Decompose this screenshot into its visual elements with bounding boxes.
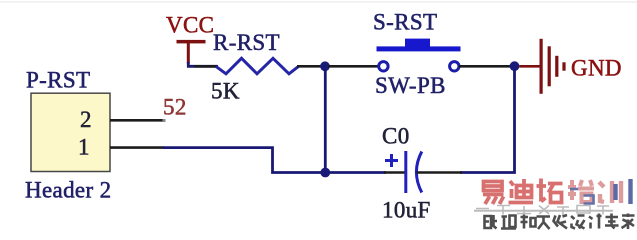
- svg-text:5K: 5K: [211, 79, 240, 104]
- wire node B down to bottom rail: [460, 66, 515, 172]
- svg-text:GND: GND: [571, 56, 622, 81]
- slogan char 3: [521, 215, 536, 229]
- svg-text:SW-PB: SW-PB: [375, 73, 446, 98]
- resistor R-RST: [211, 30, 299, 104]
- logo char 4: [568, 180, 594, 202]
- svg-text:P-RST: P-RST: [26, 67, 90, 92]
- slogan char 8: [605, 214, 619, 229]
- plus sign: [385, 154, 398, 167]
- svg-text:52: 52: [163, 95, 187, 120]
- svg-text:R-RST: R-RST: [213, 30, 280, 55]
- slogan char 1: [485, 215, 498, 229]
- resistor R1 right pin: [297, 65, 323, 68]
- logo char 2: [509, 179, 534, 203]
- capacitor C0 left pin: [384, 171, 405, 174]
- watermark logo red text row: [483, 179, 631, 205]
- svg-text:1: 1: [78, 135, 90, 160]
- right plate (curved): [416, 152, 421, 193]
- wire node A to switch: [328, 65, 379, 68]
- switch contact circle left: [379, 62, 388, 71]
- capacitor C0 right pin: [417, 171, 463, 174]
- slogan char 2: [501, 216, 516, 229]
- gnd lead wire: [519, 65, 540, 68]
- logo char 5 overlay: [616, 179, 631, 204]
- faint top edge line: [0, 1, 637, 3]
- power symbol VCC: [166, 13, 214, 64]
- wire pin 1 to node C: [163, 148, 322, 173]
- slogan char 7: [589, 214, 602, 229]
- slogan char 5: [554, 215, 568, 229]
- switch bar: [377, 46, 461, 51]
- logo char 4 overlay: [570, 189, 594, 204]
- junction node B: [510, 61, 520, 71]
- wire node A down to bottom rail: [324, 66, 327, 173]
- logo char 1: [483, 182, 504, 205]
- svg-text:VCC: VCC: [166, 13, 214, 38]
- svg-text:Header 2: Header 2: [25, 178, 111, 203]
- wire node C to capacitor: [328, 171, 386, 174]
- connector body: [31, 93, 110, 171]
- logo char 5: [599, 181, 621, 203]
- switch bump: [405, 39, 430, 47]
- slogan char 6: [571, 216, 585, 229]
- capacitor C0: [382, 124, 431, 223]
- logo char 3: [537, 179, 563, 203]
- junction node C: [320, 168, 330, 178]
- left plate: [404, 151, 407, 193]
- watermark ghost middle row: [474, 206, 613, 216]
- switch S-RST: [373, 10, 461, 99]
- resistor R1 left pin: [194, 65, 217, 68]
- pin 2 wire: [110, 119, 164, 122]
- junction node A: [320, 61, 330, 71]
- watermark slogan gray text row: [485, 214, 635, 230]
- wire switch to node B: [459, 65, 512, 68]
- slogan char 4: [537, 217, 551, 230]
- pin 1 wire: [110, 146, 164, 149]
- svg-text:S-RST: S-RST: [373, 10, 437, 35]
- svg-text:10uF: 10uF: [382, 198, 431, 223]
- svg-text:C0: C0: [382, 124, 410, 149]
- pin 2 end dot: [163, 119, 166, 122]
- connector P-RST (Header 2): [25, 67, 111, 202]
- power symbol GND: [519, 39, 622, 94]
- svg-text:2: 2: [80, 107, 92, 132]
- slogan char 9: [622, 214, 635, 230]
- switch contact circle right: [450, 62, 459, 71]
- wire VCC stem to resistor: [188, 62, 218, 66]
